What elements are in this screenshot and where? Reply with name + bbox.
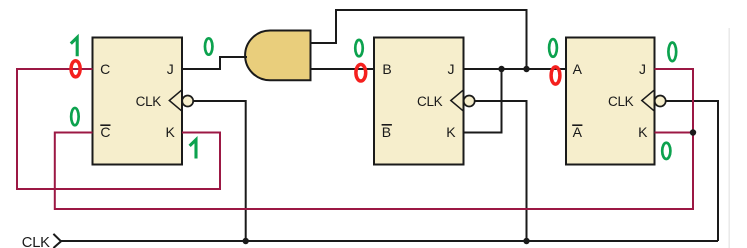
svg-text:J: J <box>167 61 174 77</box>
svg-text:CLK: CLK <box>22 235 50 248</box>
svg-text:CLK: CLK <box>417 94 443 109</box>
flip-flop U2 body <box>374 38 464 165</box>
junction dot U2 J-K tie <box>498 66 504 72</box>
wire U1 CLK to clock line <box>193 101 246 241</box>
wire U2 CLK to clock line <box>474 101 526 241</box>
junction dot U3 K on maroon net <box>690 129 696 135</box>
state label green 0 at U1 J <box>205 38 213 54</box>
U3 clock bubble <box>655 96 666 107</box>
state label red 0 at U3 A <box>551 67 560 84</box>
svg-text:B: B <box>382 124 391 140</box>
svg-text:K: K <box>166 124 176 140</box>
svg-text:CLK: CLK <box>136 94 162 109</box>
wire U1 J to G1 output <box>182 57 247 69</box>
svg-text:K: K <box>638 124 648 140</box>
wire G1 upper input from top rail <box>311 10 527 69</box>
svg-text:C: C <box>100 124 110 140</box>
svg-text:A: A <box>573 61 583 77</box>
AND gate G1 <box>245 31 310 81</box>
wire U3 CLK to clock line <box>665 101 718 241</box>
CLK source chevron <box>53 234 61 248</box>
state label green 1 at U1 K <box>190 140 196 159</box>
svg-text:A: A <box>573 124 583 140</box>
wire G1 lower input to U2 B <box>311 68 375 70</box>
svg-text:J: J <box>448 61 455 77</box>
wire U2 J rail to U3 A <box>464 68 567 70</box>
U1 clock triangle <box>169 90 182 111</box>
state label green 0 at U3 A <box>549 39 557 57</box>
state label red 0 at U2 B <box>356 64 366 81</box>
U1 clock bubble <box>182 96 193 107</box>
wire U1 C-bar to U3 J <box>55 69 693 209</box>
svg-text:CLK: CLK <box>608 94 634 109</box>
junction dot top rail to J rail <box>523 66 529 72</box>
U2 clock triangle <box>451 90 464 111</box>
U2 clock bubble <box>464 96 475 107</box>
wire U2 J to K tie <box>464 69 502 133</box>
U1 pin label C-bar <box>100 124 110 140</box>
svg-text:C: C <box>100 61 110 77</box>
state label green 0 at U3 J <box>668 43 676 62</box>
junction dot U2 clock on bus <box>523 238 529 244</box>
svg-text:J: J <box>639 61 646 77</box>
junction dot U1 clock on bus <box>243 238 249 244</box>
flip-flop U1 body <box>93 38 183 165</box>
U3 pin label A-bar <box>572 124 582 140</box>
U2 pin label B-bar <box>382 124 392 140</box>
svg-text:B: B <box>382 61 391 77</box>
wire U3 K branch <box>655 132 694 134</box>
flip-flop U3 body <box>566 38 655 165</box>
state label green 1 at U1 C <box>71 37 77 56</box>
state label green 0 at U2 B <box>355 40 363 56</box>
state label green 0 at U1 C-bar <box>71 108 79 125</box>
U3 clock triangle <box>642 90 655 111</box>
state label red 0 at U1 C <box>71 61 80 77</box>
wire U1 C to K feedback loop <box>17 69 220 189</box>
state label green 0 at U3 K <box>662 143 670 159</box>
wire clock bus line <box>61 240 718 242</box>
svg-text:K: K <box>446 124 456 140</box>
